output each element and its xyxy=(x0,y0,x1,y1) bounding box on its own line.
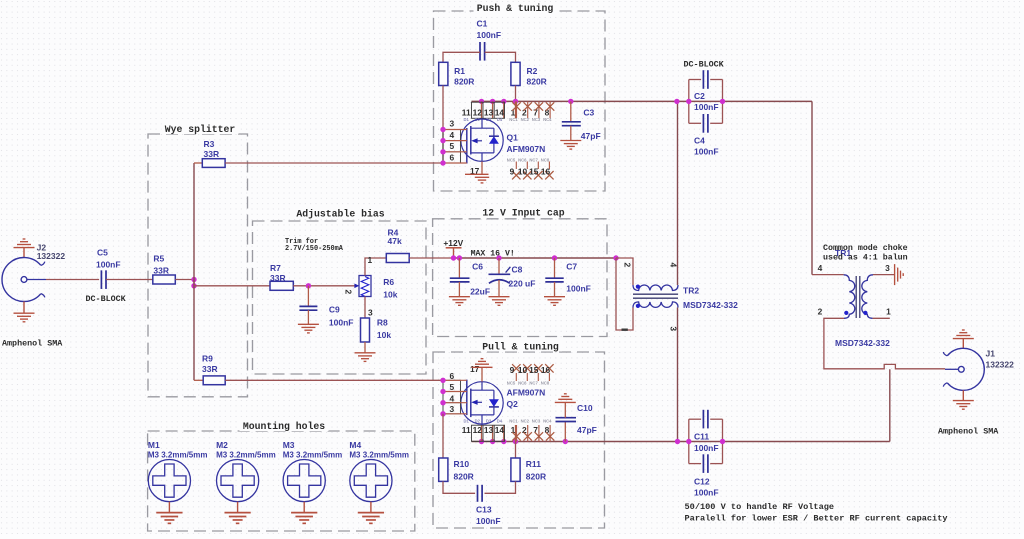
transistor Q1 AFM907N xyxy=(461,118,503,163)
svg-text:Push & tuning: Push & tuning xyxy=(477,3,554,14)
wire R9 to Q2 gate xyxy=(225,379,443,381)
svg-text:NC8: NC8 xyxy=(541,158,550,163)
junction xyxy=(440,127,445,132)
svg-text:Wye splitter: Wye splitter xyxy=(165,124,236,135)
label M1 xyxy=(148,440,208,459)
label C7 100nF xyxy=(566,262,591,294)
wire C1 right xyxy=(485,52,516,62)
svg-text:15: 15 xyxy=(529,365,539,375)
svg-text:6: 6 xyxy=(449,371,454,381)
svg-text:820R: 820R xyxy=(527,76,547,86)
label C5 100nF xyxy=(96,248,121,270)
pot pin 1 wire xyxy=(365,258,386,276)
ground above J1 xyxy=(962,339,964,349)
resistor R2 820R xyxy=(511,62,520,85)
svg-text:100nF: 100nF xyxy=(694,102,719,112)
svg-text:2.7V/150-250mA: 2.7V/150-250mA xyxy=(285,245,344,253)
label R8 10k xyxy=(377,317,391,340)
ground C10 inverted xyxy=(555,394,576,403)
svg-text:3: 3 xyxy=(449,404,454,414)
junction xyxy=(191,283,196,288)
junction xyxy=(490,99,495,104)
section box Mounting holes xyxy=(148,431,415,531)
svg-text:NC1: NC1 xyxy=(509,418,518,423)
capacitor C11 100nF xyxy=(689,410,723,429)
svg-text:33R: 33R xyxy=(270,273,286,283)
svg-text:100nF: 100nF xyxy=(96,259,121,269)
label C6 22uF xyxy=(470,262,490,297)
svg-text:1: 1 xyxy=(368,255,373,265)
resistor R9 33R xyxy=(194,379,203,381)
svg-text:100nF: 100nF xyxy=(694,488,719,498)
loop wires C2 C4 xyxy=(689,80,723,124)
pin 17 stub xyxy=(481,161,483,174)
wire riser R3-R9 xyxy=(193,163,195,380)
svg-text:13: 13 xyxy=(484,107,494,117)
label C9 100nF xyxy=(329,304,354,327)
svg-text:100nF: 100nF xyxy=(477,30,502,40)
svg-text:2: 2 xyxy=(818,307,823,317)
svg-text:R2: R2 xyxy=(527,66,538,76)
ground M3 xyxy=(303,502,305,513)
svg-text:R10: R10 xyxy=(454,459,470,469)
svg-text:NC3: NC3 xyxy=(532,418,541,423)
pot pin 3 wire xyxy=(364,297,366,319)
label C3 47pF xyxy=(581,108,601,142)
svg-text:47pF: 47pF xyxy=(577,425,597,435)
capacitor C10 47pF xyxy=(556,402,577,441)
svg-text:14: 14 xyxy=(495,425,505,435)
svg-text:4: 4 xyxy=(818,263,823,273)
svg-text:NC7: NC7 xyxy=(529,158,538,163)
svg-text:10k: 10k xyxy=(383,290,397,300)
ground C8 xyxy=(489,297,510,306)
svg-text:1: 1 xyxy=(886,307,891,317)
wire TR2 pin3 to bottom bus xyxy=(677,308,679,442)
wire R2 to drain bus xyxy=(515,86,517,102)
Q1 pin box 11-14 xyxy=(472,102,505,118)
svg-text:132322: 132322 xyxy=(37,251,66,261)
NC pins 9 10 15 16 crossed xyxy=(512,364,554,381)
svg-text:820R: 820R xyxy=(454,471,474,481)
svg-text:5: 5 xyxy=(449,382,454,392)
resistor R8 10k xyxy=(361,318,370,342)
ground C6 xyxy=(449,297,470,306)
wire R4 to 12V rail xyxy=(409,257,453,259)
svg-text:12 V Input cap: 12 V Input cap xyxy=(482,208,564,219)
svg-text:MSD7342-332: MSD7342-332 xyxy=(835,338,890,348)
connector J1 Amphenol SMA xyxy=(943,348,984,390)
pin numbers 6 5 4 3 xyxy=(449,371,454,414)
transistor Q2 AFM907N xyxy=(461,380,503,426)
junction xyxy=(440,138,445,143)
svg-text:NC8: NC8 xyxy=(541,380,550,385)
resistor R7 33R xyxy=(270,281,293,290)
wire R3 to Q1 gate xyxy=(225,162,443,164)
svg-text:47pF: 47pF xyxy=(581,131,601,141)
label C8 220 uF xyxy=(509,264,536,288)
svg-text:Amphenol SMA: Amphenol SMA xyxy=(938,427,999,437)
label C2 100nF xyxy=(694,91,719,112)
wire TR2 pin2 xyxy=(616,258,633,285)
svg-text:50/100 V to handle RF Voltage: 50/100 V to handle RF Voltage xyxy=(685,502,835,512)
svg-text:NC2: NC2 xyxy=(521,117,530,122)
wire R5 to wye node xyxy=(175,279,194,281)
junction xyxy=(479,99,484,104)
wire R1 to gate chain xyxy=(442,86,444,164)
junction xyxy=(501,439,506,444)
capacitor C7 100nF xyxy=(545,258,563,297)
Q2 gate pin box 3-6 xyxy=(443,380,461,414)
junction xyxy=(440,411,445,416)
svg-text:10: 10 xyxy=(518,166,528,176)
ground above J2 xyxy=(23,248,25,258)
svg-text:12: 12 xyxy=(473,425,483,435)
tiny pin names bottom xyxy=(507,158,550,163)
svg-text:M4: M4 xyxy=(349,440,361,450)
section box Wye splitter xyxy=(148,134,248,397)
label C11 100nF xyxy=(694,432,719,454)
svg-text:Q2: Q2 xyxy=(507,399,519,409)
svg-text:9: 9 xyxy=(510,365,515,375)
ground M1 xyxy=(168,502,170,513)
ground M4 xyxy=(370,502,372,513)
section box Adjustable bias xyxy=(253,221,427,374)
junction xyxy=(440,378,445,383)
svg-text:R9: R9 xyxy=(202,354,213,364)
svg-text:NC6: NC6 xyxy=(518,158,527,163)
svg-text:C4: C4 xyxy=(694,136,705,146)
junction xyxy=(306,283,311,288)
NC pins 9 10 15 16 crossed xyxy=(512,162,554,180)
junction xyxy=(191,277,196,282)
svg-text:C3: C3 xyxy=(583,108,594,118)
svg-text:M2: M2 xyxy=(216,440,228,450)
junction xyxy=(496,255,501,260)
label M2 xyxy=(216,440,276,459)
svg-text:D4: D4 xyxy=(497,117,503,122)
power +12V xyxy=(446,248,462,258)
wire choke pin4 xyxy=(812,274,844,276)
svg-text:11: 11 xyxy=(462,107,471,117)
resistor R1 820R xyxy=(439,62,448,85)
label J2 132322 xyxy=(37,243,66,261)
label J1 132322 xyxy=(986,348,1015,369)
capacitor C6 22uF xyxy=(450,258,470,297)
choke TR1 windings xyxy=(844,275,873,319)
svg-text:C13: C13 xyxy=(476,504,492,514)
capacitor C5 100nF xyxy=(101,270,106,289)
wire to R7 xyxy=(194,285,270,287)
svg-text:NC3: NC3 xyxy=(532,117,541,122)
mounting hole M4 xyxy=(350,460,392,502)
svg-text:100nF: 100nF xyxy=(476,516,501,526)
label C1 100nF xyxy=(477,19,502,41)
wire C5 to R5 xyxy=(106,279,153,281)
capacitor C2 100nF xyxy=(689,70,723,89)
bottom drain bus xyxy=(472,441,890,443)
svg-text:MSD7342-332: MSD7342-332 xyxy=(683,300,738,310)
junction xyxy=(568,99,573,104)
svg-text:C10: C10 xyxy=(577,403,593,413)
svg-text:NC6: NC6 xyxy=(518,380,527,385)
section box 12 V Input cap xyxy=(433,219,607,337)
svg-text:R3: R3 xyxy=(204,139,215,149)
ground C3 xyxy=(560,141,581,150)
svg-text:33R: 33R xyxy=(202,364,218,374)
svg-text:R7: R7 xyxy=(270,263,281,273)
junction xyxy=(440,389,445,394)
svg-text:C1: C1 xyxy=(477,19,488,29)
svg-text:C8: C8 xyxy=(512,264,523,274)
svg-text:R11: R11 xyxy=(526,459,541,469)
label R2 820R xyxy=(527,66,547,86)
NC pins 1 2 7 8 crossed xyxy=(512,425,554,442)
svg-text:13: 13 xyxy=(484,425,494,435)
junction xyxy=(513,99,518,104)
label R4 47k xyxy=(388,228,402,246)
Q2 drain pin stubs xyxy=(482,425,516,442)
svg-text:9: 9 xyxy=(510,166,515,176)
svg-text:R8: R8 xyxy=(377,317,388,327)
mounting hole M2 xyxy=(217,460,259,502)
svg-text:C5: C5 xyxy=(97,248,108,258)
label R1 820R xyxy=(454,66,474,86)
junction xyxy=(479,439,484,444)
wire choke pin3 to ground xyxy=(873,274,894,276)
capacitor C1 100nF xyxy=(480,42,485,61)
Q1 gate stubs xyxy=(443,130,467,164)
junction xyxy=(563,439,568,444)
svg-text:TR2: TR2 xyxy=(683,285,699,295)
pin numbers 9 10 15 16 xyxy=(510,365,551,375)
junction xyxy=(440,160,445,165)
svg-text:M3: M3 xyxy=(283,440,295,450)
junction xyxy=(552,255,557,260)
potentiometer R6 10k xyxy=(354,276,371,297)
section box Push & tuning xyxy=(434,11,606,191)
svg-text:C9: C9 xyxy=(329,304,340,314)
label Q1 AFM907N xyxy=(507,133,546,155)
svg-text:C11: C11 xyxy=(694,432,709,442)
svg-text:22uF: 22uF xyxy=(470,286,490,296)
wire R7 to pot xyxy=(293,285,356,287)
junction xyxy=(440,400,445,405)
note common mode choke xyxy=(823,243,908,263)
ground below J1 xyxy=(962,390,964,400)
tiny pin names top xyxy=(464,117,553,122)
ground below J2 xyxy=(23,302,25,314)
pin numbers 3 4 5 6 xyxy=(449,119,454,163)
svg-text:820R: 820R xyxy=(526,471,546,481)
svg-text:Adjustable bias: Adjustable bias xyxy=(296,209,384,220)
svg-text:100nF: 100nF xyxy=(329,317,354,327)
svg-text:C2: C2 xyxy=(694,91,705,101)
svg-text:12: 12 xyxy=(473,107,483,117)
ground R8 xyxy=(355,353,376,362)
resistor R10 820R xyxy=(442,414,444,458)
svg-text:D4: D4 xyxy=(497,418,503,423)
svg-text:3: 3 xyxy=(885,263,890,273)
label R6 10k xyxy=(383,277,397,300)
top drain bus xyxy=(472,100,813,102)
svg-text:16: 16 xyxy=(541,166,551,176)
junction xyxy=(686,99,691,104)
mounting hole M1 xyxy=(148,460,190,502)
capacitor C8 220uF polarized xyxy=(489,258,511,297)
junction xyxy=(675,439,680,444)
ground C7 xyxy=(544,297,565,306)
label M4 xyxy=(349,440,409,459)
junction xyxy=(674,99,679,104)
label R9 33R xyxy=(202,354,218,374)
pin numbers 11 12 13 14 xyxy=(462,425,505,435)
capacitor C13 100nF xyxy=(443,481,516,501)
svg-text:M3 3.2mm/5mm: M3 3.2mm/5mm xyxy=(148,450,208,459)
svg-text:14: 14 xyxy=(495,107,505,117)
junction xyxy=(686,439,691,444)
svg-text:2: 2 xyxy=(344,289,354,294)
svg-text:D1: D1 xyxy=(464,117,470,122)
section box Pull & tuning xyxy=(433,352,605,528)
svg-text:220 uF: 220 uF xyxy=(509,278,536,288)
12V rail xyxy=(454,257,617,259)
svg-text:5: 5 xyxy=(449,141,454,151)
wire bus corner down xyxy=(811,101,813,274)
svg-text:3: 3 xyxy=(368,307,373,317)
capacitor C9 100nF xyxy=(299,286,317,325)
label C10 47pF xyxy=(577,403,597,435)
ground M2 xyxy=(237,502,239,513)
svg-text:Mounting holes: Mounting holes xyxy=(243,421,325,432)
capacitor C4 100nF xyxy=(689,114,723,133)
junction xyxy=(513,439,518,444)
svg-text:Amphenol SMA: Amphenol SMA xyxy=(2,339,63,349)
junction xyxy=(457,255,462,260)
svg-text:820R: 820R xyxy=(454,76,474,86)
label M3 xyxy=(283,440,343,459)
Q1 drain pin stubs xyxy=(482,101,516,118)
wire C1 left xyxy=(443,52,480,62)
ground C9 xyxy=(298,324,319,333)
Q2 pin box 11-14 xyxy=(472,425,505,441)
capacitor C12 100nF xyxy=(689,454,723,473)
loop wires C11 C12 xyxy=(689,419,723,463)
svg-text:4: 4 xyxy=(449,393,454,403)
svg-text:MAX 16 V!: MAX 16 V! xyxy=(471,249,515,258)
svg-text:M1: M1 xyxy=(148,440,160,450)
svg-text:NC7: NC7 xyxy=(529,380,538,385)
svg-text:17: 17 xyxy=(470,364,480,374)
label C4 100nF xyxy=(694,136,719,157)
pin numbers 1 2 7 8 xyxy=(511,425,550,435)
svg-text:M3 3.2mm/5mm: M3 3.2mm/5mm xyxy=(349,450,409,459)
junction xyxy=(501,99,506,104)
tiny pin names pull top xyxy=(507,380,550,385)
wire TR2 pin4 to top bus xyxy=(677,101,679,285)
svg-text:2: 2 xyxy=(623,263,633,268)
svg-text:C12: C12 xyxy=(694,476,710,486)
NC pins 1 2 7 8 crossed xyxy=(512,101,554,118)
connector J2 Amphenol SMA xyxy=(2,258,46,302)
svg-text:DC-BLOCK: DC-BLOCK xyxy=(684,60,725,70)
junction xyxy=(720,439,725,444)
label R7 33R xyxy=(270,263,286,283)
svg-text:NC2: NC2 xyxy=(521,418,530,423)
pin label 1 xyxy=(622,329,628,331)
label C12 100nF xyxy=(694,476,719,497)
svg-text:47k: 47k xyxy=(388,236,402,246)
tiny pin names pull bottom xyxy=(464,418,553,423)
svg-text:Paralell for lower ESR / Bette: Paralell for lower ESR / Better RF curre… xyxy=(685,514,948,524)
label Q2 AFM907N xyxy=(507,388,546,410)
resistor R5 33R xyxy=(153,275,176,284)
svg-text:6: 6 xyxy=(449,152,454,162)
wire R8 to ground xyxy=(364,342,366,353)
svg-text:J1: J1 xyxy=(986,348,996,358)
pin numbers 9 10 15 16 xyxy=(510,166,551,176)
svg-text:M3 3.2mm/5mm: M3 3.2mm/5mm xyxy=(283,450,343,459)
svg-text:C6: C6 xyxy=(472,262,483,272)
svg-text:11: 11 xyxy=(462,425,471,435)
svg-text:R1: R1 xyxy=(454,66,465,76)
pin numbers 1 2 7 8 xyxy=(511,107,550,117)
svg-text:100nF: 100nF xyxy=(694,443,719,453)
ground choke pin3 rotated xyxy=(895,264,904,285)
ground Q2 source inverted xyxy=(472,359,493,368)
Q1 gate pin box 3-6 xyxy=(443,130,461,164)
svg-text:4: 4 xyxy=(449,130,454,140)
svg-text:10k: 10k xyxy=(377,330,391,340)
junction xyxy=(720,99,725,104)
label TR2 MSD7342-332 xyxy=(683,285,738,310)
wire choke pin1 down xyxy=(873,317,890,319)
node wye jog xyxy=(193,280,195,286)
resistor R3 33R xyxy=(194,162,202,164)
svg-text:Q1: Q1 xyxy=(507,133,519,143)
junction xyxy=(451,255,456,260)
junction xyxy=(490,439,495,444)
resistor R4 47k xyxy=(386,254,409,263)
wire bottom bus corner up xyxy=(889,369,891,441)
svg-text:AFM907N: AFM907N xyxy=(507,144,546,154)
svg-text:NC4: NC4 xyxy=(543,117,552,122)
svg-text:NC1: NC1 xyxy=(509,117,518,122)
capacitor C3 47pF xyxy=(562,101,581,140)
label R3 33R xyxy=(204,139,220,159)
trim note xyxy=(285,238,344,253)
svg-text:used as 4:1 balun: used as 4:1 balun xyxy=(823,252,908,262)
label R5 33R xyxy=(153,254,169,276)
svg-text:33R: 33R xyxy=(153,265,169,275)
svg-text:Pull & tuning: Pull & tuning xyxy=(482,342,559,353)
wire choke pin2 to J1 xyxy=(824,318,945,369)
junction xyxy=(440,149,445,154)
ground Q1 source xyxy=(465,174,489,183)
svg-text:33R: 33R xyxy=(204,149,220,159)
svg-text:15: 15 xyxy=(529,166,539,176)
svg-text:16: 16 xyxy=(541,365,551,375)
svg-text:NC5: NC5 xyxy=(507,158,516,163)
svg-text:3: 3 xyxy=(449,119,454,129)
svg-text:100nF: 100nF xyxy=(694,147,719,157)
label R11 820R xyxy=(526,459,546,481)
svg-text:10: 10 xyxy=(518,365,528,375)
resistor R11 820R xyxy=(515,442,517,459)
wire TR2 pin1 xyxy=(616,258,633,330)
svg-text:AFM907N: AFM907N xyxy=(507,388,546,398)
svg-text:NC4: NC4 xyxy=(543,418,552,423)
